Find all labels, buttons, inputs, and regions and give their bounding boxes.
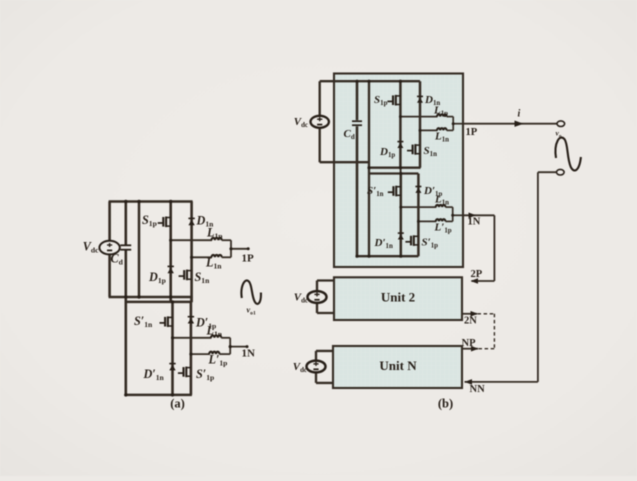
wire - top rail of lower bridge (a) <box>125 301 192 304</box>
voltage source Vdc unit1 (b) <box>319 81 321 162</box>
wire - lower sub-bridge top rail (b) <box>369 172 419 174</box>
inductor L'1p (a) <box>209 352 219 354</box>
junction dots on rails (a) <box>124 200 127 203</box>
wire - lower sub-bridge bottom rail (b) <box>357 255 418 257</box>
wire - middle branch upper bridge (a) <box>169 202 172 303</box>
diode D1p (b) <box>397 143 403 148</box>
svg-text:2N: 2N <box>464 316 477 327</box>
transistor S1n (a) <box>179 270 192 281</box>
wire - inner box left edge (a) <box>138 202 141 298</box>
svg-text:Unit 2: Unit 2 <box>381 290 415 305</box>
node 1N stub inside unit1 (b) <box>453 214 463 216</box>
wire - long return line down right side (b) <box>537 172 539 382</box>
inductor L1n (b) <box>437 128 447 130</box>
wire - midpoint to L1p (b) <box>400 116 437 118</box>
transistor S'1n (a) <box>160 316 173 327</box>
svg-text:Unit N: Unit N <box>379 358 417 373</box>
unit 1 shaded box (b) <box>334 74 463 268</box>
wire - bottom rail of upper bridge (a) <box>109 296 193 299</box>
dashed link 2N to NP (b) <box>478 313 495 315</box>
junction dots lower bridge (a) <box>171 336 174 339</box>
svg-text:NN: NN <box>470 384 486 395</box>
wire - right branch upper (b) <box>419 81 422 168</box>
inductor L'1p (b) <box>436 219 446 221</box>
output terminal top (b) <box>557 121 565 127</box>
svg-text:1N: 1N <box>468 217 481 228</box>
inductor L1n (a) <box>212 255 222 257</box>
transistor S'1p (b) <box>405 235 418 246</box>
unit N shaded box (b) <box>333 346 462 388</box>
diode D'1p (b) <box>415 188 421 193</box>
wire - right branch connector between bridges (a) <box>190 297 192 302</box>
node NN wire to return line (b) <box>465 381 538 383</box>
node NP stub (b) <box>462 348 478 350</box>
node 1P stub inside unit1 (b) <box>453 123 463 125</box>
wire - join vertical lower (b) <box>452 207 454 221</box>
transistor S1p (b) <box>387 95 400 106</box>
capacitor Cd plates (a) <box>120 244 131 246</box>
junction dots on rails unit1 (b) <box>355 80 358 83</box>
node 2N stub (b) <box>462 313 477 315</box>
diode D'1n (b) <box>398 234 404 239</box>
svg-text:NP: NP <box>462 338 477 349</box>
inductor L1n lower (a) <box>211 335 221 337</box>
voltage source Vdc (a) <box>99 241 119 255</box>
wire - middle branch lower bridge (a) <box>171 302 174 395</box>
wire - coil to join (b) <box>445 206 452 208</box>
output terminal bottom (b) <box>557 169 565 175</box>
circuit (a) DC source branch wire <box>108 202 111 298</box>
wire - upper sub-bridge bottom rail (b) <box>369 167 421 169</box>
diode D1n (b) <box>417 98 423 103</box>
wire - join vertical (b) <box>452 117 454 131</box>
wire - coil to join2 (b) <box>445 220 452 222</box>
capacitor Cd branch wire (a) <box>125 202 128 245</box>
transistor S1p (a) <box>158 217 171 228</box>
wire - second midpoint to L'1p (a) <box>191 353 210 355</box>
wire - bottom rail of lower bridge (a) <box>125 394 192 397</box>
wire - L1n to output join (a) <box>222 256 231 258</box>
wire - midpoint2 to L1n (b) <box>420 129 438 131</box>
wire - lower midpoint2 to L'1p (b) <box>418 220 436 222</box>
svg-text:1P: 1P <box>242 253 255 265</box>
node 1N output stub (a) <box>230 346 247 348</box>
wire - output join vertical lower (a) <box>229 338 231 354</box>
ac output sine symbol vo (b) <box>555 138 580 171</box>
svg-text:(a): (a) <box>170 397 185 411</box>
transistor S1n (b) <box>407 144 420 155</box>
wire - output join vertical (a) <box>230 240 232 257</box>
svg-text:i: i <box>518 109 521 120</box>
wire - bottom terminal to return line (b) <box>538 171 557 173</box>
wire - right branch lower bridge (a) <box>190 302 193 395</box>
ac output sine symbol vo1 (a) <box>241 280 261 303</box>
wire - top rail of upper bridge (a) <box>109 200 193 203</box>
diode D1p (a) <box>168 268 174 274</box>
wire - lower bridge midpoint to L1n (a) <box>173 337 212 339</box>
wire - lower midpoint to L1n (b) <box>401 206 437 208</box>
wire - right branch upper bridge (a) <box>190 202 193 303</box>
wire - L1p to output join (a) <box>222 239 231 241</box>
node 1P label (b) <box>515 121 524 127</box>
diode D'1n (a) <box>169 365 175 371</box>
inductor L1n lower (b) <box>436 205 446 207</box>
capacitor Cd branch (b) <box>356 81 359 120</box>
node 1P output stub (a) <box>231 248 248 250</box>
wire - middle branch upper (b) <box>399 81 402 168</box>
wire - 1N to 2P link (b) <box>463 214 494 216</box>
wire - inner box left edge (b) <box>368 81 370 256</box>
unit1 source bottom wire (b) <box>320 161 369 163</box>
wire - coil to join lower (a) <box>221 337 230 339</box>
svg-text:1P: 1P <box>466 127 478 138</box>
svg-text:2P: 2P <box>471 269 483 280</box>
wire - link to 2P (b) <box>472 280 495 282</box>
wire - middle branch connector between sub-bridges (b) <box>400 168 402 174</box>
junction dots upper bridge (a) <box>169 239 172 242</box>
wire - coil to join lower 2 (a) <box>219 353 230 355</box>
capacitor Cd plates (b) <box>352 120 362 122</box>
svg-text:(b): (b) <box>438 397 453 411</box>
svg-text:1N: 1N <box>242 348 256 360</box>
wire - middle branch lower (b) <box>400 174 403 257</box>
wire - L1n to join (b) <box>447 129 454 131</box>
transistor S'1n (b) <box>388 186 401 197</box>
diode D'1p (a) <box>188 318 194 324</box>
transistor S'1p (a) <box>178 367 191 378</box>
voltage source Vdc unitN (b) <box>315 351 317 383</box>
unit 2 shaded box (b) <box>334 277 462 320</box>
wire - 1P output line with current arrow (b) <box>463 123 557 125</box>
wire - right branch lower (b) <box>417 174 420 257</box>
wire - link vertical (b) <box>493 215 495 281</box>
diode D1n (a) <box>188 220 194 226</box>
inductor L1p (a) <box>212 238 222 240</box>
wire - upper bridge midpoint to L1p (a) <box>171 239 212 241</box>
wire - L1p to join (b) <box>447 116 454 118</box>
inductor L1p (b) <box>437 114 447 116</box>
wire - lower midpoint to L1n (a) <box>192 256 212 258</box>
unit1 top internal rail (b) <box>320 80 420 82</box>
voltage source Vdc unit2 (b) <box>316 281 318 314</box>
